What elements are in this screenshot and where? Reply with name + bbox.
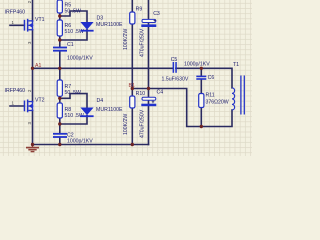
wire VT1 gate lead <box>10 24 24 26</box>
diode D4 MUR1100E <box>80 108 93 118</box>
resistor R11 <box>199 94 204 108</box>
resistor R6 <box>57 20 62 36</box>
svg-text:A1: A1 <box>35 63 41 69</box>
junction C6 top <box>200 67 203 70</box>
ground <box>26 145 39 152</box>
transistor VT1 <box>24 19 34 32</box>
svg-text:1000p/1KV: 1000p/1KV <box>67 139 93 145</box>
wire ground bus <box>33 144 149 146</box>
svg-text:376Ω20W: 376Ω20W <box>206 99 229 105</box>
polarity plus (C3) <box>154 19 157 22</box>
polarity plus (C4) <box>152 101 155 104</box>
capacitor C4 (electrolytic) <box>142 97 156 100</box>
wire R8 bottom to C2 <box>59 118 61 133</box>
transistor VT2 <box>24 100 34 113</box>
wire VT2 drain <box>32 68 34 101</box>
svg-text:VT2: VT2 <box>35 98 45 104</box>
junction A1 at VT1 source / VT2 drain <box>31 67 34 70</box>
capacitor C1 <box>53 47 67 52</box>
resistor R7 <box>57 80 62 96</box>
svg-text:1000p/1KV: 1000p/1KV <box>184 62 210 68</box>
wire D4 cathode return <box>60 116 87 124</box>
diode D3 MUR1100E <box>80 22 93 32</box>
wire VT2 gate lead <box>10 105 24 107</box>
svg-text:1000p/1KV: 1000p/1KV <box>67 55 93 61</box>
svg-text:D4: D4 <box>97 98 104 104</box>
svg-text:50 .5W: 50 .5W <box>65 9 82 15</box>
capacitor C3 (electrolytic) <box>142 19 156 22</box>
wire C6 bottom to R11 <box>200 80 202 94</box>
wire R9 top <box>131 0 133 12</box>
svg-text:T1: T1 <box>233 62 239 68</box>
capacitor C5 <box>173 62 177 73</box>
transformer T1 primary coil <box>232 88 235 110</box>
svg-text:100K/2W: 100K/2W <box>123 114 129 135</box>
wire R6 bottom to C1 <box>59 36 61 47</box>
wire bus to R7 <box>59 68 61 80</box>
svg-text:C2: C2 <box>67 132 74 138</box>
wire bus node A1 <box>33 67 173 69</box>
resistor R10 <box>130 96 135 108</box>
svg-text:MUR1100E: MUR1100E <box>96 22 123 28</box>
resistor R8 <box>57 103 62 118</box>
junction R11 bottom <box>200 125 203 128</box>
wire junction to D3 anode <box>60 11 87 22</box>
svg-text:IRFP460: IRFP460 <box>5 88 26 94</box>
svg-text:R7: R7 <box>65 84 72 90</box>
wire VT1 drain <box>32 0 34 21</box>
junction R5 / R6 / D3 anode <box>58 14 61 17</box>
junction C1 / R7 on A1 bus <box>58 67 61 70</box>
svg-text:50 .5W: 50 .5W <box>65 90 82 96</box>
svg-text:R9: R9 <box>136 7 143 13</box>
junction VT2 source / ground <box>31 143 34 146</box>
wire C5 right to corner <box>176 68 232 88</box>
transformer T1 core <box>241 76 244 115</box>
capacitor C2 <box>53 133 67 138</box>
wire C2 bottom to ground bus <box>59 137 61 144</box>
wire T1 bottom return <box>132 89 232 127</box>
junction R8 / D4 cathode / C2 <box>58 122 61 125</box>
wire C3 bottom to C4 top <box>148 27 150 104</box>
svg-text:C1: C1 <box>67 42 74 48</box>
wire R5 to R6 <box>59 13 61 20</box>
svg-text:R10: R10 <box>136 91 146 97</box>
wire R10 bottom <box>131 108 133 145</box>
svg-text:R5: R5 <box>65 2 72 8</box>
wire C3 top <box>148 0 150 25</box>
svg-text:MUR1100E: MUR1100E <box>96 107 123 113</box>
svg-text:R8: R8 <box>65 107 72 113</box>
wire R11 bottom <box>200 108 202 127</box>
svg-text:100K/2W: 100K/2W <box>123 29 129 50</box>
svg-text:D3: D3 <box>97 15 104 21</box>
wire R7 to R8 <box>59 96 61 103</box>
svg-text:IRFP460: IRFP460 <box>5 10 26 16</box>
wire junction to D4 anode <box>60 94 87 108</box>
junction C3 / C4 on node B1 <box>147 87 150 90</box>
resistor R9 <box>130 12 135 24</box>
wire C4 bottom <box>148 106 150 144</box>
svg-text:VT1: VT1 <box>35 17 45 23</box>
svg-text:1.5uF/630V: 1.5uF/630V <box>162 77 189 83</box>
wire VT1 source to node A1 <box>32 30 34 69</box>
svg-text:R6: R6 <box>65 23 72 29</box>
junction R9 / R10 on node B1 <box>131 87 134 90</box>
svg-text:C5: C5 <box>171 57 178 63</box>
capacitor C6 <box>196 76 206 80</box>
junction R6 / D3 cathode / C1 <box>58 38 61 41</box>
svg-text:C4: C4 <box>157 90 164 96</box>
svg-text:C6: C6 <box>208 75 215 81</box>
junction C2 on ground bus <box>58 143 61 146</box>
svg-text:R11: R11 <box>206 93 215 99</box>
svg-text:470uF/250V: 470uF/250V <box>140 28 146 57</box>
wire D3 cathode return <box>60 30 87 40</box>
wire R9 bottom to R10 <box>131 24 133 96</box>
junction R10 on ground bus <box>131 143 134 146</box>
wire VT2 source <box>32 111 34 145</box>
svg-text:C3: C3 <box>153 11 160 17</box>
junction R7 / R8 / D4 anode <box>58 97 61 100</box>
resistor R5 <box>57 0 62 13</box>
wire C6 top <box>200 68 202 75</box>
svg-text:470uF/250V: 470uF/250V <box>140 109 146 138</box>
wire C1 bottom to bus <box>59 51 61 68</box>
